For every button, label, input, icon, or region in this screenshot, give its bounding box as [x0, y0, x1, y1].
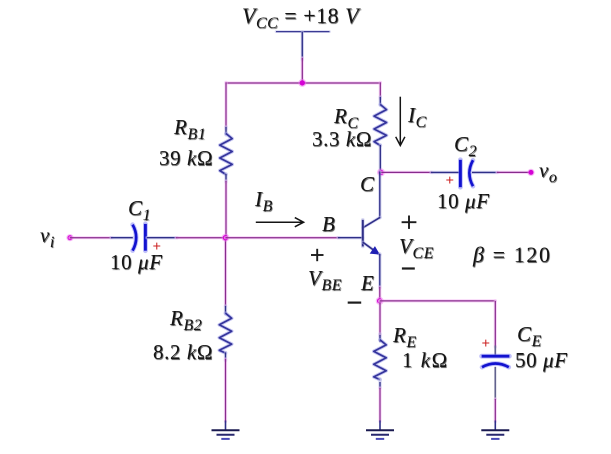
resistor RB1 top lead	[224, 127, 227, 135]
wire VCC stem lower (magenta)	[301, 58, 304, 84]
label plus VBE (drawn)	[311, 249, 324, 261]
node collector junction	[377, 168, 385, 176]
resistor RE bottom lead	[378, 379, 381, 389]
node junction on top rail	[298, 79, 306, 87]
resistor RC bottom lead to collector node	[379, 145, 382, 173]
capacitor C1 curved plate	[133, 225, 137, 251]
wire left drop rail to RB1	[224, 82, 227, 128]
label C1	[128, 198, 151, 219]
capacitor CE top lead stub	[494, 346, 496, 356]
label plus CE polarity	[482, 337, 491, 352]
wire right drop rail to RC	[379, 82, 382, 98]
capacitor C2 left lead	[431, 171, 459, 174]
label 50 uF	[515, 350, 568, 371]
resistor RB2 top lead	[224, 306, 227, 314]
label IC	[408, 105, 427, 126]
ground middle under RE	[366, 421, 394, 439]
wire base lead into transistor	[338, 236, 363, 239]
label C2	[454, 134, 477, 155]
resistor RE 1k zigzag	[374, 340, 386, 380]
label plus C1 polarity	[153, 240, 162, 255]
label 8.2 kOhm	[153, 342, 213, 363]
label RB1	[174, 117, 206, 138]
resistor RC top lead	[379, 97, 382, 105]
wire CE to ground	[494, 399, 497, 422]
wire base junction to transistor	[226, 236, 340, 239]
label E	[361, 273, 374, 294]
capacitor C1 right lead	[147, 236, 177, 239]
wire VCC stem upper (navy)	[301, 32, 304, 60]
label beta = 120	[473, 244, 552, 266]
label CE	[517, 324, 542, 345]
label vo	[539, 160, 558, 181]
node vi input terminal	[66, 234, 73, 241]
label 10 uF (C2)	[437, 191, 490, 212]
wire RB2 to ground	[224, 359, 227, 422]
wire base junction down to RB2	[224, 238, 227, 307]
wire collector node to C2	[381, 171, 432, 174]
wire RE to ground	[378, 388, 381, 422]
wire C1 to base junction	[176, 236, 227, 239]
wire top rail horizontal	[226, 81, 380, 84]
wire emitter to junction	[378, 287, 381, 301]
label plus VCE (drawn)	[402, 216, 417, 229]
power supply bar (VCC rail symbol)	[276, 30, 330, 33]
label VCE	[399, 236, 434, 257]
wire vi to C1	[70, 236, 112, 239]
label minus VBE (drawn)	[348, 302, 362, 304]
label 1 kOhm	[402, 350, 449, 371]
node base rail junction	[222, 234, 230, 242]
resistor RB2 8.2k zigzag	[219, 313, 231, 353]
label 10 uF (C1)	[110, 252, 163, 273]
transistor Q1 base bar	[361, 220, 365, 247]
capacitor CE curved bottom plate	[482, 364, 509, 368]
node vo output terminal	[527, 169, 534, 176]
wire C2 to vo terminal	[497, 171, 531, 174]
resistor RB1 bottom lead	[224, 174, 227, 182]
transistor Q1 collector diagonal	[363, 217, 380, 228]
label VBE	[308, 268, 342, 289]
resistor RE top lead	[378, 334, 381, 342]
label RE	[393, 325, 417, 346]
arrow IC (collector current)	[396, 97, 405, 146]
label IB	[255, 189, 273, 210]
arrow IB (base current)	[256, 218, 304, 227]
transistor Q1 emitter diagonal	[363, 242, 380, 255]
wire CE drop	[494, 301, 497, 347]
capacitor C1 straight plate	[143, 224, 148, 251]
capacitor CE bottom lead stub	[494, 367, 496, 400]
capacitor C2 curved plate	[469, 160, 473, 186]
resistor RB2 bottom lead	[224, 353, 227, 361]
transistor Q1 emitter arrowhead	[371, 247, 379, 254]
resistor RB1 39k zigzag	[220, 134, 232, 175]
label 3.3 kOhm	[312, 129, 372, 150]
node emitter junction	[376, 297, 384, 305]
label plus C2 polarity	[446, 174, 455, 189]
capacitor CE straight top plate	[482, 354, 510, 359]
capacitor C2 right lead	[472, 171, 498, 174]
resistor RC 3.3k zigzag	[374, 105, 386, 146]
ground right under CE	[481, 421, 509, 439]
label C (collector)	[360, 174, 375, 195]
label 39 kOhm	[159, 148, 213, 169]
transistor Q1 emitter vertical wire	[378, 254, 381, 288]
capacitor C2 straight plate	[458, 160, 463, 187]
capacitor C1 left lead	[111, 236, 133, 239]
label vi	[40, 225, 55, 246]
label RC	[334, 106, 359, 127]
wire RB1 to base junction	[224, 181, 227, 238]
label minus VCE (drawn)	[402, 267, 415, 269]
ground left under RB2	[212, 421, 240, 439]
label VCC = +18 V	[242, 5, 359, 27]
label B	[322, 214, 335, 235]
wire emitter junction to CE branch	[380, 299, 496, 302]
label RB2	[170, 308, 202, 329]
wire emitter junction down to RE	[378, 301, 381, 336]
transistor Q1 collector vertical wire	[378, 172, 381, 218]
